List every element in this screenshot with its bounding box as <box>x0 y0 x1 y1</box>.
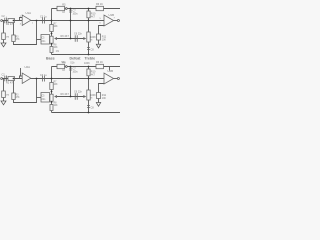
svg-text:R2 47K: R2 47K <box>6 23 15 26</box>
capacitor C6 wiper series top <box>75 35 77 42</box>
svg-text:C3 1u: C3 1u <box>40 16 47 19</box>
resistor R5 rail left top <box>57 6 65 10</box>
svg-text:S1b: S1b <box>70 63 75 65</box>
resistor R3' feedback bottom <box>12 93 15 100</box>
wire: U2B power pin stub <box>109 66 111 71</box>
wire: bottom feedback resistor drop <box>13 79 15 94</box>
wire: U2A bias stub <box>20 68 22 76</box>
capacitor C3' interstage bottom <box>43 76 45 82</box>
wire: bottom treble column <box>88 67 90 113</box>
wire: U2B output <box>114 78 118 80</box>
capacitor C7 defeat top <box>69 10 72 12</box>
wire: U1B output <box>114 20 118 22</box>
wire: U1A neg input jog <box>20 18 23 21</box>
wiper arrow VR1 bottom <box>54 95 57 98</box>
op-amp U1A <box>22 15 31 25</box>
svg-text:Bass: Bass <box>46 56 55 60</box>
capacitor C1 input top <box>5 18 7 23</box>
wire: middle ground bus <box>52 54 121 56</box>
potentiometer VR1' Bass bottom <box>50 94 53 101</box>
op-amp U2A <box>22 73 31 83</box>
svg-text:R11: R11 <box>102 36 107 39</box>
resistor R11 U1B gain top <box>97 34 101 40</box>
wire: U2B gain resistor to ground <box>98 99 100 103</box>
capacitor C8' treble lower bottom <box>87 106 90 108</box>
potentiometer VR2 Treble top <box>87 32 90 42</box>
resistor R7 bass feed top <box>50 25 53 32</box>
svg-text:4K7: 4K7 <box>91 17 96 19</box>
svg-text:1M: 1M <box>6 95 9 97</box>
potentiometer VR1 Bass top <box>50 36 53 43</box>
capacitor C3 interstage top <box>43 18 45 24</box>
wire: bottom defeat column <box>70 67 72 97</box>
wire: top signal line <box>3 20 105 22</box>
wire: top input shunt drop <box>3 21 5 34</box>
svg-text:100K: 100K <box>84 62 90 65</box>
capacitor C6' wiper series bottom <box>75 93 77 100</box>
resistor R2 series input top <box>8 19 15 23</box>
svg-text:1K: 1K <box>62 70 65 72</box>
svg-text:C3 1u: C3 1u <box>40 74 47 77</box>
resistor R10 treble feed top <box>87 11 90 18</box>
wire: U2B inverting input <box>99 84 105 93</box>
svg-text:R10: R10 <box>91 13 96 16</box>
svg-text:C6 22n: C6 22n <box>74 90 83 93</box>
wire: U1B gain resistor to ground <box>98 40 100 44</box>
wire: top treble column <box>88 9 90 55</box>
svg-text:100u: 100u <box>73 72 79 74</box>
capacitor C5 boxed bass cap top <box>41 35 50 45</box>
wire: top wiper line <box>56 38 85 40</box>
terminal input bottom <box>1 78 3 80</box>
svg-text:C6 22n: C6 22n <box>74 32 83 35</box>
svg-text:Defeat: Defeat <box>70 56 82 60</box>
svg-text:R11: R11 <box>102 94 107 97</box>
wire: bottom bass column <box>51 67 53 113</box>
wire: bottom shunt to ground <box>3 98 5 102</box>
svg-text:Treble: Treble <box>85 56 96 60</box>
terminal input top <box>1 20 3 22</box>
wire: bottom feedback return <box>14 79 37 103</box>
svg-text:10K: 10K <box>54 105 59 107</box>
capacitor C7' defeat bottom <box>69 68 72 70</box>
resistor R3 feedback top <box>12 35 15 42</box>
wiper arrow VR1 top <box>54 37 57 40</box>
op-amp U1B <box>104 15 114 26</box>
wire: U1B inverting input <box>99 26 105 35</box>
svg-text:10K: 10K <box>102 98 107 100</box>
junction node dots bottom <box>13 78 15 80</box>
svg-text:R9 4K7: R9 4K7 <box>61 93 70 96</box>
svg-text:4K7: 4K7 <box>91 75 96 77</box>
wire: bottom signal line <box>3 78 105 80</box>
wire: top feedback resistor drop <box>13 21 15 36</box>
wire: bottom wiper line <box>56 96 85 98</box>
resistor R7' bass feed bottom <box>50 83 53 90</box>
ground U2B gain bottom <box>96 103 100 107</box>
svg-text:10K: 10K <box>54 47 59 49</box>
capacitor C8 treble lower top <box>87 48 90 50</box>
svg-text:47K: 47K <box>16 97 21 99</box>
svg-text:R9 4K7: R9 4K7 <box>61 35 70 38</box>
svg-text:U1B: U1B <box>109 13 115 17</box>
svg-text:100u: 100u <box>73 14 79 16</box>
terminal output top <box>117 20 119 22</box>
wire: bottom supply rail <box>52 66 121 68</box>
svg-text:1M: 1M <box>6 37 9 39</box>
svg-text:10K: 10K <box>54 26 59 28</box>
wire: bottom bus <box>52 112 121 114</box>
svg-text:R6 1K: R6 1K <box>96 61 103 64</box>
svg-text:10K: 10K <box>102 40 107 42</box>
wiper arrow VR2 bottom <box>83 95 86 98</box>
svg-text:U1A: U1A <box>26 11 32 15</box>
wire: U2A neg input jog <box>20 76 23 79</box>
resistor R1' input shunt bottom <box>2 91 6 98</box>
wire: top shunt to ground <box>3 40 5 44</box>
op-amp U2B <box>104 73 114 84</box>
svg-text:100K: 100K <box>90 94 96 97</box>
wire: bottom input shunt drop <box>3 79 5 92</box>
wiper arrow VR2 top <box>83 37 86 40</box>
terminal output bottom <box>117 78 119 80</box>
terminal rail bottom <box>65 66 67 68</box>
capacitor C1' input bottom <box>5 76 7 81</box>
svg-text:47K: 47K <box>16 39 21 41</box>
terminal rail top <box>65 8 67 10</box>
ground input shunt bottom <box>1 101 6 105</box>
svg-text:10K: 10K <box>54 84 59 86</box>
resistor R11' U2B gain bottom <box>97 93 101 99</box>
junction node dots top <box>13 20 15 22</box>
ground U1B gain top <box>96 44 100 48</box>
resistor R2' series input bottom <box>8 77 15 81</box>
wire: top feedback return <box>14 21 37 45</box>
capacitor C5' boxed bass cap bottom <box>41 93 50 103</box>
svg-text:R6 1K: R6 1K <box>96 3 103 6</box>
wire: top supply rail <box>52 8 121 10</box>
svg-text:R10: R10 <box>91 71 96 74</box>
resistor R8' bass lower bottom <box>50 105 53 111</box>
resistor R8 bass lower top <box>50 47 53 53</box>
wire: stub to bottom cap box <box>37 97 42 99</box>
wire: top defeat column <box>70 9 72 39</box>
resistor R6 rail right top <box>96 6 104 10</box>
potentiometer VR2' Treble bottom <box>87 90 90 100</box>
svg-text:U2A: U2A <box>25 65 31 69</box>
resistor R1 input shunt top <box>2 33 6 40</box>
resistor R10' treble feed bottom <box>87 69 90 76</box>
svg-text:U2B: U2B <box>108 69 114 73</box>
svg-text:1K: 1K <box>62 12 65 14</box>
ground input shunt top <box>1 43 6 47</box>
svg-text:S1a: S1a <box>61 62 66 64</box>
wire: top bass column <box>51 9 53 55</box>
resistor R5' rail left bottom <box>57 64 65 68</box>
resistor R6' rail right bottom <box>96 64 104 68</box>
svg-text:R2 47K: R2 47K <box>6 82 15 85</box>
svg-text:100K: 100K <box>90 36 96 39</box>
wire: stub to bass cap box top <box>37 39 42 41</box>
